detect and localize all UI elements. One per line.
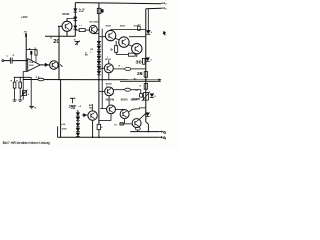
svg-text:R R: R R xyxy=(36,77,40,79)
svg-text:30: 30 xyxy=(136,60,143,65)
svg-text:2N 3055: 2N 3055 xyxy=(89,21,99,23)
svg-text:BD139: BD139 xyxy=(62,14,70,16)
svg-text:TDA: TDA xyxy=(29,61,34,64)
svg-text:2x1N: 2x1N xyxy=(60,124,65,126)
svg-text:BD250: BD250 xyxy=(121,98,128,101)
svg-text:BD249: BD249 xyxy=(106,24,112,27)
svg-text:BD250: BD250 xyxy=(131,98,138,101)
svg-text:+40V: +40V xyxy=(21,16,29,19)
svg-text:240: 240 xyxy=(69,104,76,109)
svg-text:M: M xyxy=(34,108,36,110)
svg-text:BD249: BD249 xyxy=(106,98,115,101)
svg-text:20: 20 xyxy=(53,39,60,45)
svg-text:BD139: BD139 xyxy=(105,59,111,61)
svg-text:BD250: BD250 xyxy=(120,25,126,27)
svg-text:Bild 7: HiFi-Verstärker höhere: Bild 7: HiFi-Verstärker höherer Leistung xyxy=(3,141,50,145)
